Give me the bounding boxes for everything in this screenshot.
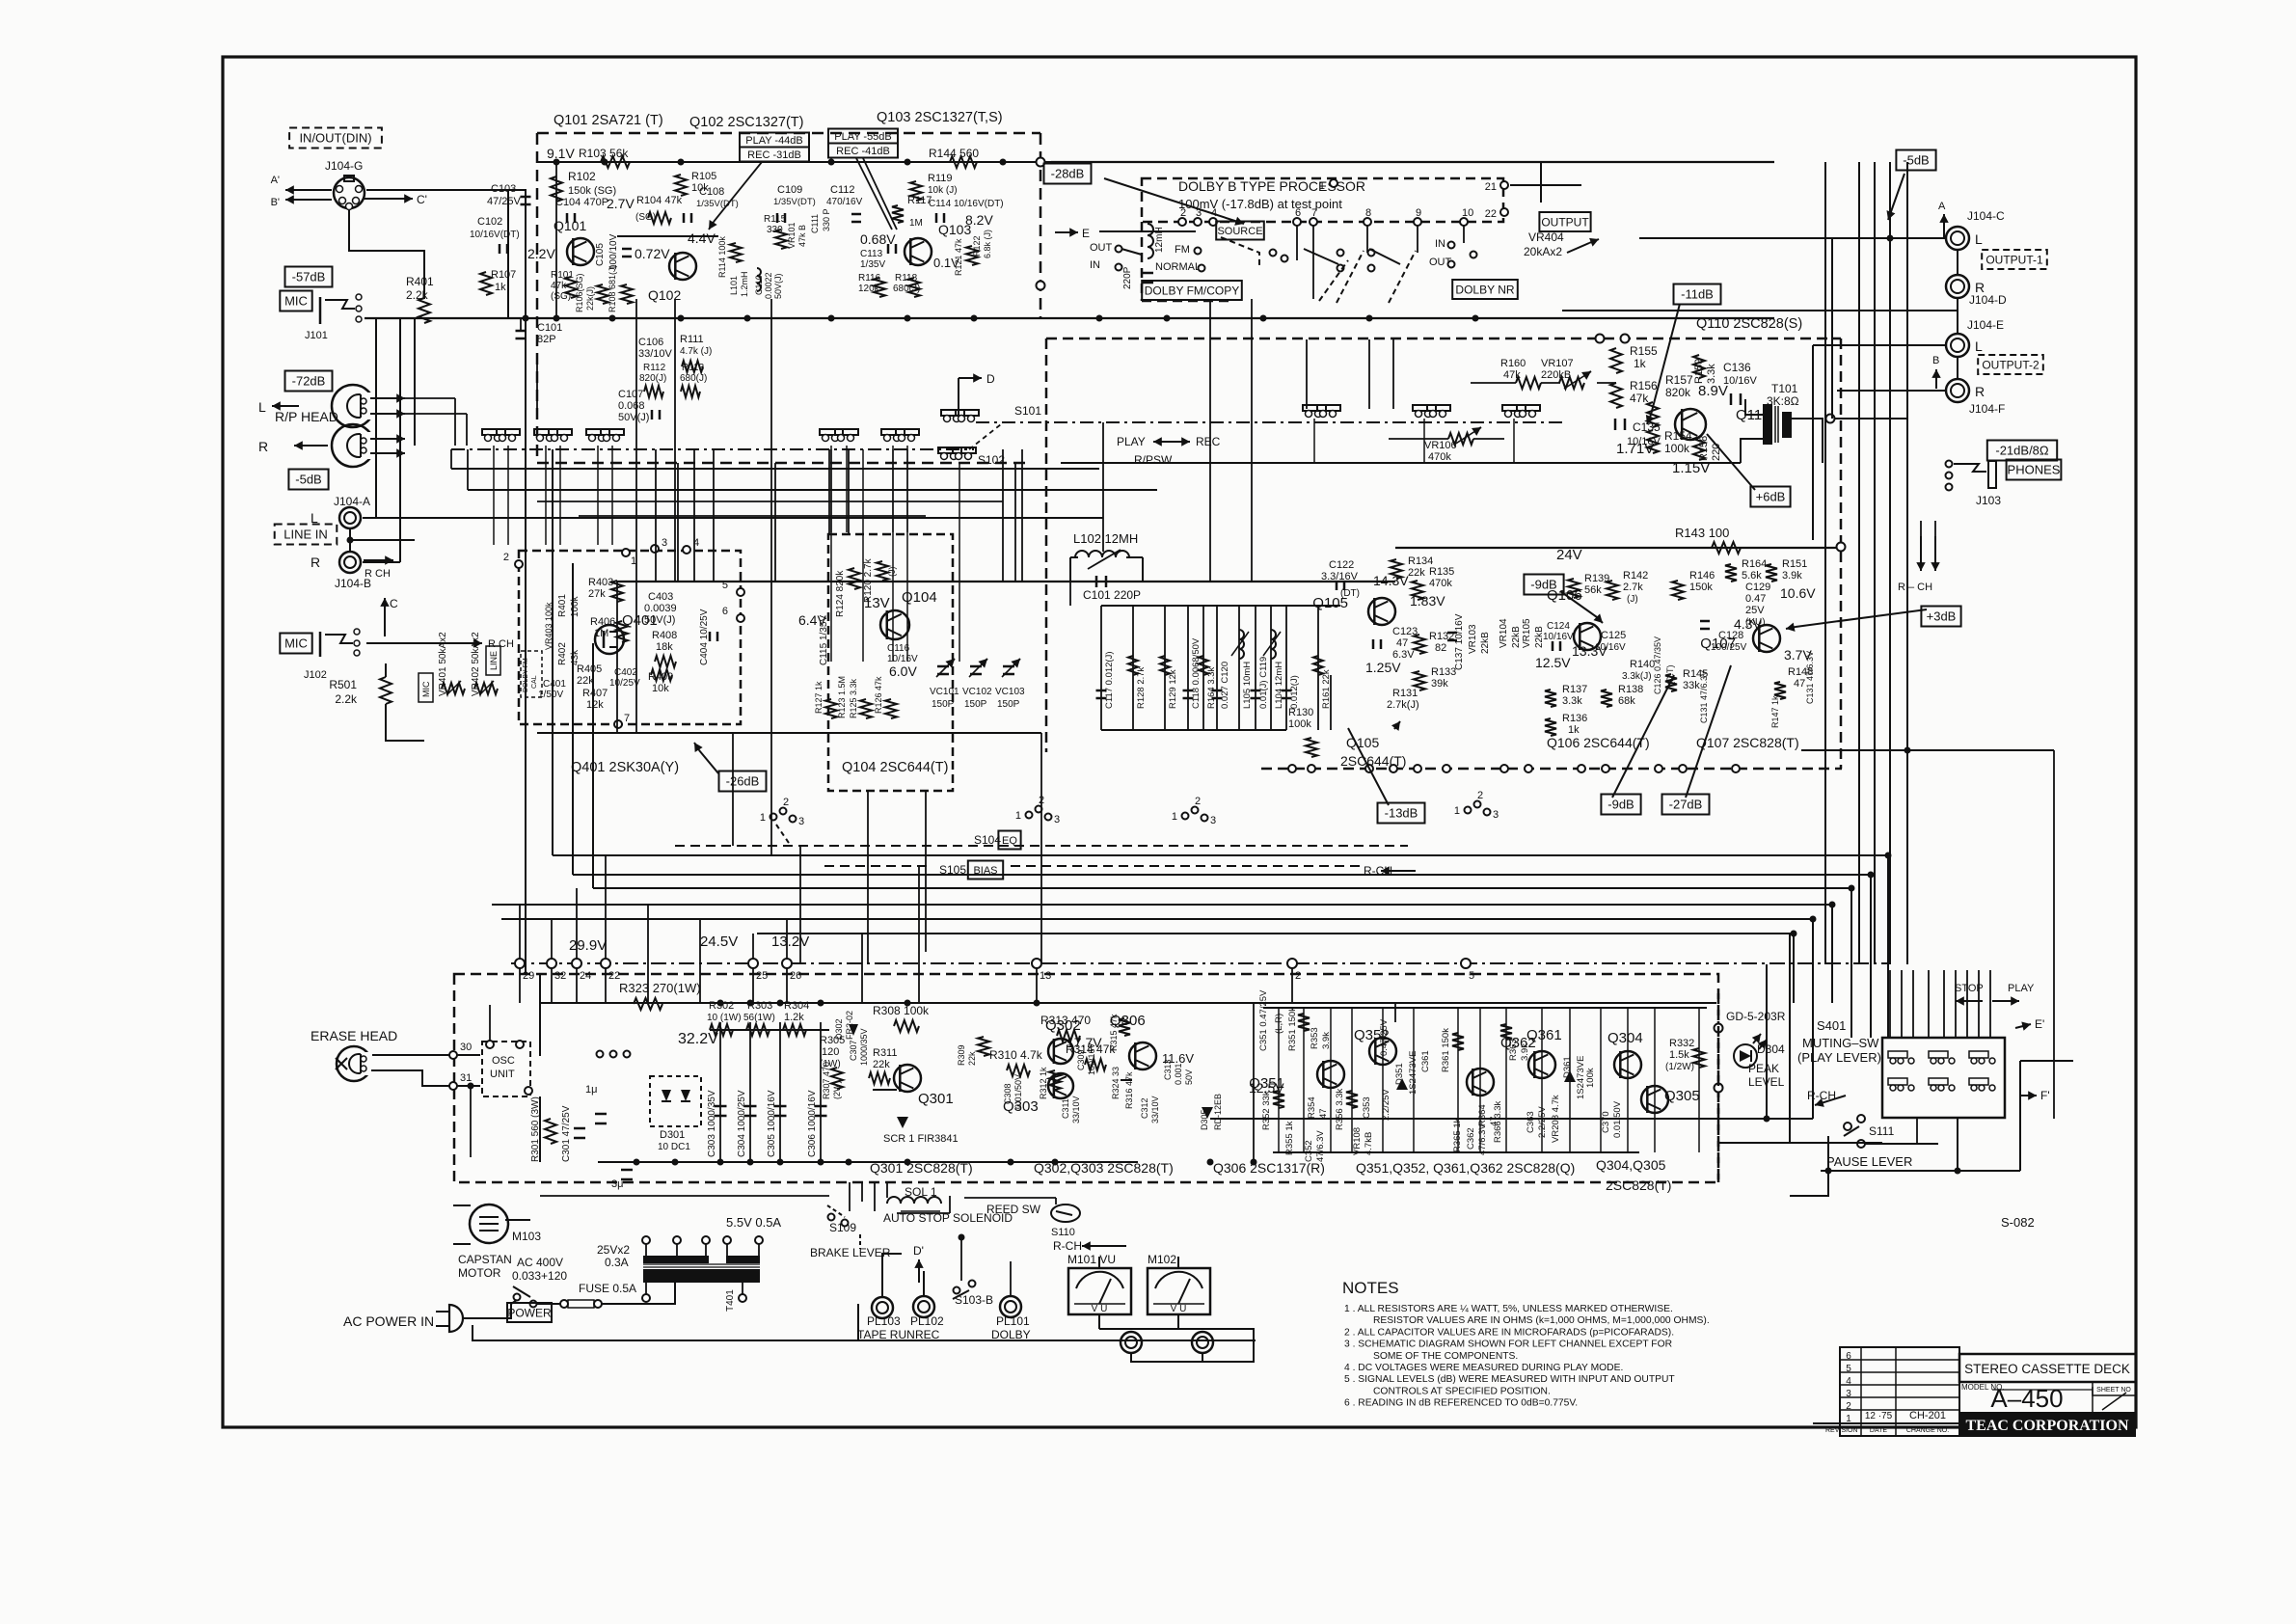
svg-text:FM: FM	[1175, 244, 1190, 256]
svg-text:REED SW: REED SW	[986, 1203, 1041, 1216]
svg-text:-5dB: -5dB	[295, 473, 321, 487]
svg-text:R136: R136	[1562, 713, 1587, 724]
svg-text:R307 470: R307 470	[822, 1062, 831, 1099]
svg-text:0.47/25V: 0.47/25V	[1379, 1018, 1390, 1056]
svg-text:PL102: PL102	[910, 1314, 944, 1328]
svg-text:1.71V: 1.71V	[1616, 441, 1654, 457]
svg-text:47: 47	[1318, 1108, 1329, 1119]
svg-text:R125 3.3k: R125 3.3k	[849, 678, 858, 718]
svg-text:C101 220P: C101 220P	[1083, 588, 1141, 602]
svg-text:100k: 100k	[1664, 442, 1690, 455]
svg-text:150P: 150P	[932, 699, 955, 710]
svg-text:22k(J): 22k(J)	[585, 286, 595, 311]
svg-text:J104-F: J104-F	[1969, 402, 2005, 416]
svg-text:3 . SCHEMATIC DIAGRAM SHOWN FO: 3 . SCHEMATIC DIAGRAM SHOWN FOR LEFT CHA…	[1344, 1340, 1672, 1350]
svg-text:(J): (J)	[887, 567, 897, 578]
svg-text:REVISION: REVISION	[1825, 1427, 1857, 1434]
svg-text:33k: 33k	[1683, 680, 1700, 691]
svg-text:56k: 56k	[1584, 584, 1602, 596]
svg-text:ERASE HEAD: ERASE HEAD	[311, 1028, 397, 1043]
svg-text:CHANGE NO.: CHANGE NO.	[1906, 1427, 1949, 1434]
svg-text:20kAx2: 20kAx2	[1524, 245, 1562, 258]
svg-text:-13dB: -13dB	[1385, 806, 1418, 821]
svg-text:C401: C401	[543, 679, 566, 690]
svg-text:REC -31dB: REC -31dB	[747, 149, 801, 161]
svg-text:SOME OF THE COMPONENTS.: SOME OF THE COMPONENTS.	[1373, 1351, 1518, 1362]
svg-text:R311: R311	[873, 1047, 897, 1059]
svg-text:PAUSE LEVER: PAUSE LEVER	[1826, 1154, 1912, 1169]
svg-text:Q303: Q303	[1003, 1098, 1039, 1115]
svg-text:C131 47/6.3V: C131 47/6.3V	[1699, 670, 1709, 723]
svg-text:AC POWER IN: AC POWER IN	[343, 1313, 434, 1329]
svg-text:R113: R113	[682, 363, 705, 373]
svg-text:J102: J102	[304, 669, 327, 681]
svg-text:Q110 2SC828(S): Q110 2SC828(S)	[1696, 316, 1802, 332]
svg-text:J104-B: J104-B	[335, 577, 371, 590]
svg-text:REC: REC	[915, 1328, 940, 1341]
svg-text:C': C'	[417, 193, 427, 206]
svg-text:R309: R309	[957, 1044, 966, 1066]
svg-text:A: A	[1938, 201, 1946, 212]
svg-text:0.01(J) C119: 0.01(J) C119	[1258, 657, 1269, 709]
svg-text:100mV (-17.8dB) at test point: 100mV (-17.8dB) at test point	[1178, 197, 1342, 211]
svg-text:Q106 2SC644(T): Q106 2SC644(T)	[1547, 735, 1650, 750]
svg-text:24.5V: 24.5V	[700, 934, 738, 950]
svg-text:22k: 22k	[967, 1051, 977, 1066]
svg-text:2: 2	[1846, 1401, 1851, 1412]
svg-text:22k: 22k	[873, 1059, 890, 1070]
svg-text:C107: C107	[618, 389, 643, 400]
svg-text:2.7k(J): 2.7k(J)	[1387, 699, 1419, 711]
svg-text:C125: C125	[1601, 630, 1626, 641]
svg-text:VR107: VR107	[1541, 358, 1574, 369]
svg-text:39k: 39k	[1431, 678, 1448, 690]
svg-text:C403: C403	[648, 591, 673, 603]
svg-text:R123 1.5M: R123 1.5M	[837, 676, 847, 718]
svg-text:Q101: Q101	[554, 218, 586, 233]
svg-text:OUTPUT: OUTPUT	[1541, 215, 1589, 229]
svg-text:10/16V: 10/16V	[1543, 632, 1574, 642]
svg-text:R316 47k: R316 47k	[1124, 1071, 1134, 1109]
svg-text:2: 2	[503, 552, 509, 563]
svg-text:R101: R101	[551, 270, 574, 281]
svg-text:C353: C353	[1362, 1096, 1372, 1119]
svg-text:D302: D302	[834, 1018, 844, 1040]
svg-text:OUTPUT-2: OUTPUT-2	[1982, 358, 2039, 371]
svg-text:C109: C109	[777, 184, 802, 196]
svg-text:C108: C108	[699, 186, 724, 198]
svg-text:2.2k: 2.2k	[335, 692, 358, 706]
svg-text:22k: 22k	[577, 675, 594, 687]
svg-text:AC 400V: AC 400V	[517, 1256, 563, 1269]
svg-text:3: 3	[798, 816, 804, 827]
svg-text:R133: R133	[1431, 666, 1456, 678]
svg-text:1/35V: 1/35V	[860, 259, 885, 270]
svg-text:-11dB: -11dB	[1681, 287, 1714, 302]
svg-text:+6dB: +6dB	[1756, 490, 1786, 504]
svg-text:F': F'	[2040, 1089, 2050, 1102]
svg-text:1: 1	[1454, 805, 1460, 817]
svg-text:6 . READING IN dB REFERENCED T: 6 . READING IN dB REFERENCED TO 0dB=0.77…	[1344, 1398, 1578, 1409]
svg-text:82P: 82P	[537, 334, 556, 345]
svg-text:S401: S401	[1817, 1018, 1846, 1033]
svg-text:Q102: Q102	[648, 287, 681, 303]
svg-text:10: 10	[1462, 207, 1473, 219]
svg-text:IN: IN	[1090, 259, 1100, 271]
svg-text:C115 1/35V: C115 1/35V	[819, 615, 829, 665]
svg-text:0.68V: 0.68V	[860, 231, 896, 247]
svg-text:C404 10/25V: C404 10/25V	[699, 609, 710, 665]
svg-text:J104-A: J104-A	[334, 495, 370, 508]
svg-text:R142: R142	[1623, 570, 1648, 582]
svg-text:6.8k (J): 6.8k (J)	[983, 230, 992, 258]
svg-text:(PLAY LEVER): (PLAY LEVER)	[1797, 1050, 1881, 1065]
svg-text:10/16V: 10/16V	[1595, 642, 1626, 653]
svg-text:R130: R130	[1288, 707, 1313, 718]
svg-text:R353: R353	[1310, 1027, 1320, 1049]
svg-text:82: 82	[1435, 642, 1446, 654]
svg-text:A': A'	[271, 175, 280, 186]
svg-text:9: 9	[1416, 207, 1421, 219]
svg-text:33/10V: 33/10V	[638, 348, 673, 360]
svg-text:4: 4	[1211, 207, 1217, 219]
svg-text:Q107 2SC828(T): Q107 2SC828(T)	[1696, 735, 1799, 750]
svg-text:1M: 1M	[909, 218, 923, 229]
svg-text:R106(SG): R106(SG)	[575, 273, 584, 312]
svg-text:120: 120	[822, 1046, 839, 1058]
svg-text:100/10V: 100/10V	[608, 233, 619, 270]
svg-text:R501: R501	[329, 678, 357, 691]
svg-text:Q302: Q302	[1045, 1017, 1081, 1034]
svg-text:L105 10mH: L105 10mH	[1242, 662, 1253, 709]
svg-text:30: 30	[460, 1042, 472, 1053]
svg-text:820k: 820k	[1665, 386, 1691, 399]
svg-text:C105: C105	[595, 243, 606, 266]
svg-text:STEREO CASSETTE DECK: STEREO CASSETTE DECK	[1964, 1362, 2130, 1376]
svg-text:J104-D: J104-D	[1969, 293, 2007, 307]
svg-text:C106: C106	[638, 337, 663, 348]
svg-text:E: E	[1082, 227, 1090, 240]
svg-text:3.3k: 3.3k	[1706, 364, 1717, 384]
svg-text:S101: S101	[1014, 404, 1041, 418]
svg-text:47: 47	[1396, 637, 1408, 649]
svg-text:S102: S102	[978, 453, 1005, 467]
svg-text:MIC: MIC	[284, 636, 308, 651]
svg-text:C352: C352	[1304, 1140, 1314, 1162]
svg-text:8: 8	[1365, 207, 1371, 219]
svg-text:B': B'	[271, 197, 280, 208]
svg-text:1.15V: 1.15V	[1672, 460, 1710, 476]
svg-text:32: 32	[554, 970, 566, 982]
svg-text:C103: C103	[491, 183, 516, 195]
svg-text:32.2V: 32.2V	[678, 1031, 718, 1047]
svg-text:R128 2.7k: R128 2.7k	[1136, 666, 1147, 709]
svg-text:S111: S111	[1869, 1124, 1895, 1138]
svg-text:1: 1	[760, 812, 766, 824]
svg-text:50V(J): 50V(J)	[773, 273, 783, 299]
svg-text:R111: R111	[680, 334, 704, 345]
svg-text:Q102 2SC1327(T): Q102 2SC1327(T)	[689, 115, 803, 130]
svg-text:PL101: PL101	[996, 1314, 1030, 1328]
svg-text:CONTROLS AT SPECIFIED POSITION: CONTROLS AT SPECIFIED POSITION.	[1373, 1386, 1551, 1396]
svg-text:A–450: A–450	[1990, 1384, 2063, 1413]
svg-text:PL103: PL103	[867, 1314, 901, 1328]
svg-text:D301: D301	[660, 1129, 685, 1141]
svg-text:4.4V: 4.4V	[688, 230, 716, 246]
svg-text:R143 100: R143 100	[1675, 526, 1729, 540]
svg-text:L104 12mH: L104 12mH	[1274, 662, 1284, 709]
svg-text:Q301: Q301	[918, 1091, 954, 1107]
svg-text:FUSE 0.5A: FUSE 0.5A	[579, 1282, 636, 1295]
svg-text:150P: 150P	[964, 699, 987, 710]
svg-text:LINE IN: LINE IN	[284, 528, 328, 542]
svg-text:J104-C: J104-C	[1967, 209, 2005, 223]
svg-text:T101: T101	[1771, 382, 1798, 395]
svg-text:820(J): 820(J)	[639, 373, 666, 384]
svg-text:C102: C102	[477, 216, 502, 228]
svg-text:VR105: VR105	[1522, 618, 1532, 648]
svg-text:R155: R155	[1630, 344, 1658, 358]
svg-text:47/6.3V: 47/6.3V	[1477, 1123, 1488, 1155]
svg-text:S-082: S-082	[2001, 1215, 2035, 1230]
svg-text:1.5k: 1.5k	[1669, 1049, 1689, 1061]
svg-text:C110: C110	[754, 275, 764, 295]
svg-text:1 . ALL RESISTORS ARE ¼ WATT,: 1 . ALL RESISTORS ARE ¼ WATT, 5%, UNLESS…	[1344, 1303, 1673, 1314]
svg-text:10/16V(DT): 10/16V(DT)	[470, 230, 520, 240]
svg-text:R323 270(1W): R323 270(1W)	[619, 981, 701, 995]
svg-text:C351 0.47/25V: C351 0.47/25V	[1258, 989, 1269, 1051]
svg-text:MIC: MIC	[421, 681, 431, 697]
svg-text:50V(J): 50V(J)	[644, 614, 675, 626]
svg-text:10/16V: 10/16V	[1723, 375, 1758, 387]
svg-text:50V: 50V	[1184, 1069, 1194, 1085]
svg-text:2: 2	[1180, 207, 1186, 219]
svg-text:R352 33k: R352 33k	[1261, 1091, 1272, 1130]
svg-text:C113: C113	[860, 249, 883, 259]
svg-text:C126 0.47/35V: C126 0.47/35V	[1653, 636, 1662, 694]
svg-text:L: L	[1975, 231, 1983, 247]
svg-text:C117 0.012(J): C117 0.012(J)	[1104, 652, 1115, 710]
svg-text:27k: 27k	[588, 588, 606, 600]
svg-text:VR404: VR404	[1528, 230, 1564, 244]
svg-text:C361: C361	[1420, 1050, 1431, 1072]
svg-text:C370: C370	[1601, 1111, 1611, 1133]
svg-text:(SG): (SG)	[635, 212, 656, 223]
svg-text:R408: R408	[652, 630, 677, 641]
svg-text:3: 3	[1210, 815, 1216, 826]
svg-text:R401: R401	[557, 594, 568, 617]
svg-text:R: R	[1975, 384, 1985, 399]
svg-text:V U: V U	[1171, 1304, 1187, 1314]
svg-text:Q107: Q107	[1700, 636, 1736, 652]
svg-text:5 . SIGNAL LEVELS (dB) WERE ME: 5 . SIGNAL LEVELS (dB) WERE MEASURED WIT…	[1344, 1374, 1675, 1385]
svg-text:C307: C307	[849, 1040, 858, 1061]
svg-text:RD-12EB: RD-12EB	[1213, 1094, 1223, 1130]
svg-text:SCR 1 FIR3841: SCR 1 FIR3841	[883, 1133, 959, 1145]
svg-text:TAPE RUN: TAPE RUN	[857, 1328, 915, 1341]
svg-text:3.9k: 3.9k	[1520, 1043, 1530, 1061]
svg-text:VC102: VC102	[962, 687, 992, 697]
svg-text:13.2V: 13.2V	[771, 934, 809, 950]
svg-text:1/35V(DT): 1/35V(DT)	[696, 199, 739, 209]
svg-text:VR108: VR108	[1352, 1127, 1363, 1155]
svg-text:R131: R131	[1392, 688, 1418, 699]
svg-text:6: 6	[722, 606, 728, 617]
svg-text:5: 5	[1846, 1364, 1851, 1374]
svg-text:33/10V: 33/10V	[1150, 1096, 1160, 1123]
svg-text:C131 47/6.3V: C131 47/6.3V	[1805, 651, 1815, 704]
svg-text:R135: R135	[1429, 566, 1454, 578]
svg-text:R102: R102	[568, 170, 596, 183]
svg-text:2.7V: 2.7V	[607, 196, 635, 211]
svg-text:CH-201: CH-201	[1909, 1410, 1946, 1421]
svg-text:SOURCE: SOURCE	[1217, 226, 1262, 237]
svg-text:R308 100k: R308 100k	[873, 1004, 930, 1017]
svg-text:6.0V: 6.0V	[889, 663, 917, 679]
svg-text:1k: 1k	[1634, 357, 1647, 370]
svg-text:S104: S104	[974, 833, 1001, 847]
svg-text:DATE: DATE	[1870, 1427, 1887, 1434]
svg-text:3.3k: 3.3k	[1562, 695, 1582, 707]
svg-text:M102: M102	[1148, 1253, 1176, 1266]
svg-text:R138: R138	[1618, 684, 1643, 695]
svg-text:Q306: Q306	[1110, 1013, 1146, 1029]
svg-text:1.25V: 1.25V	[1365, 660, 1401, 675]
svg-text:R332: R332	[1669, 1038, 1694, 1049]
svg-text:OUTPUT-1: OUTPUT-1	[1985, 253, 2043, 266]
svg-text:100k: 100k	[1288, 718, 1311, 730]
svg-text:R147 1k: R147 1k	[1770, 695, 1780, 728]
svg-text:MOTOR: MOTOR	[458, 1266, 501, 1280]
svg-text:Q351,Q352, Q361,Q362 2SC828(Q: Q351,Q352, Q361,Q362 2SC828(Q)	[1356, 1160, 1575, 1176]
svg-text:R364: R364	[1477, 1104, 1488, 1126]
svg-text:V U: V U	[1092, 1304, 1108, 1314]
svg-text:E': E'	[2035, 1017, 2044, 1031]
svg-text:J101: J101	[305, 330, 328, 341]
svg-text:25V: 25V	[1745, 605, 1765, 616]
svg-text:-27dB: -27dB	[1669, 798, 1703, 812]
svg-text:26: 26	[790, 970, 801, 982]
svg-text:29: 29	[523, 970, 534, 982]
svg-text:1k: 1k	[495, 282, 506, 293]
svg-text:0.3A: 0.3A	[605, 1256, 629, 1269]
svg-text:C114 10/16V(DT): C114 10/16V(DT)	[929, 199, 1004, 209]
svg-text:-9dB: -9dB	[1607, 798, 1634, 812]
svg-text:5.6k: 5.6k	[1742, 570, 1762, 582]
svg-text:0.027 C120: 0.027 C120	[1220, 662, 1230, 709]
svg-text:C305 1000/16V: C305 1000/16V	[767, 1090, 777, 1157]
svg-text:4: 4	[1846, 1376, 1851, 1387]
svg-text:L102 12MH: L102 12MH	[1073, 531, 1138, 546]
svg-text:3.9k: 3.9k	[1782, 570, 1802, 582]
svg-text:R/PSW: R/PSW	[1134, 453, 1173, 467]
svg-text:L: L	[1975, 338, 1983, 354]
svg-text:2.2V: 2.2V	[527, 246, 555, 261]
svg-text:3.3k(J): 3.3k(J)	[1622, 671, 1652, 682]
svg-text:-21dB/8Ω: -21dB/8Ω	[1995, 444, 2049, 458]
svg-text:M103: M103	[512, 1230, 541, 1243]
svg-text:R: R	[258, 439, 268, 454]
svg-text:C362: C362	[1466, 1127, 1476, 1150]
svg-text:POWER: POWER	[507, 1306, 552, 1319]
svg-text:D: D	[986, 372, 995, 386]
svg-text:-26dB: -26dB	[726, 774, 760, 789]
svg-text:D': D'	[913, 1244, 924, 1258]
svg-text:0.72V: 0.72V	[635, 246, 670, 261]
svg-text:470k: 470k	[1429, 578, 1452, 589]
svg-text:VR101: VR101	[787, 222, 797, 249]
svg-text:-57dB: -57dB	[292, 270, 326, 284]
svg-text:17.7V: 17.7V	[1067, 1035, 1102, 1050]
svg-text:RESISTOR VALUES ARE IN OHMS (k: RESISTOR VALUES ARE IN OHMS (k=1,000 OHM…	[1373, 1315, 1710, 1326]
svg-text:0.47: 0.47	[1745, 593, 1766, 605]
svg-text:CAPSTAN: CAPSTAN	[458, 1253, 512, 1266]
svg-text:R164 3.3k: R164 3.3k	[1206, 666, 1217, 709]
svg-text:R354: R354	[1307, 1096, 1317, 1119]
svg-text:C116: C116	[887, 643, 910, 654]
svg-text:0.012(J): 0.012(J)	[1289, 675, 1300, 709]
svg-text:C363: C363	[1526, 1111, 1536, 1133]
svg-text:R108 681(J): R108 681(J)	[608, 264, 617, 312]
svg-text:Q304: Q304	[1607, 1030, 1643, 1046]
svg-text:(2W): (2W)	[832, 1081, 842, 1100]
svg-text:R124 820k: R124 820k	[835, 570, 846, 617]
svg-text:2: 2	[1195, 796, 1201, 807]
svg-text:2 . ALL CAPACITOR VALUES ARE I: 2 . ALL CAPACITOR VALUES ARE IN MICROFAR…	[1344, 1327, 1674, 1338]
svg-text:3: 3	[1196, 207, 1202, 219]
svg-text:220kB: 220kB	[1541, 369, 1571, 381]
svg-text:220P: 220P	[1122, 266, 1133, 289]
svg-text:VC101: VC101	[930, 687, 959, 697]
svg-text:24: 24	[580, 970, 591, 982]
svg-text:1.83V: 1.83V	[1410, 593, 1445, 609]
svg-text:R401: R401	[406, 275, 434, 288]
svg-text:1.2mH: 1.2mH	[740, 271, 749, 297]
svg-text:L: L	[258, 399, 266, 415]
svg-text:3.3/16V: 3.3/16V	[1321, 571, 1359, 582]
svg-text:VR104: VR104	[1499, 618, 1509, 648]
svg-text:68k: 68k	[1618, 695, 1635, 707]
svg-text:24V: 24V	[1556, 547, 1582, 563]
svg-text:LINE: LINE	[489, 651, 499, 670]
svg-text:R366 3.3k: R366 3.3k	[1493, 1100, 1503, 1143]
svg-text:22k: 22k	[1408, 567, 1425, 579]
svg-text:-28dB: -28dB	[1051, 167, 1085, 181]
svg-text:12.5V: 12.5V	[1535, 655, 1571, 670]
svg-text:47k B: 47k B	[797, 225, 807, 247]
svg-text:R164: R164	[1742, 558, 1767, 570]
svg-text:Q104 2SC644(T): Q104 2SC644(T)	[842, 760, 948, 775]
svg-text:VR106: VR106	[1424, 440, 1457, 451]
svg-text:B: B	[1932, 355, 1939, 366]
svg-text:R104 47k: R104 47k	[636, 195, 683, 206]
svg-text:REC: REC	[1196, 435, 1221, 448]
svg-text:C304 1000/25V: C304 1000/25V	[737, 1090, 747, 1157]
svg-text:1/50V: 1/50V	[538, 690, 563, 700]
svg-text:VR103: VR103	[1468, 624, 1478, 654]
svg-text:C111: C111	[810, 214, 820, 233]
svg-text:R114 100k: R114 100k	[717, 236, 727, 278]
svg-text:6: 6	[1295, 207, 1301, 219]
svg-text:D304: D304	[1757, 1042, 1785, 1056]
svg-text:22: 22	[1485, 208, 1497, 220]
svg-text:C306 1000/16V: C306 1000/16V	[807, 1090, 818, 1157]
svg-text:R112: R112	[643, 363, 666, 373]
svg-text:R407: R407	[582, 688, 608, 699]
svg-text:R312 1k: R312 1k	[1039, 1067, 1048, 1099]
svg-text:C124: C124	[1547, 621, 1570, 632]
svg-text:2: 2	[1477, 790, 1483, 801]
